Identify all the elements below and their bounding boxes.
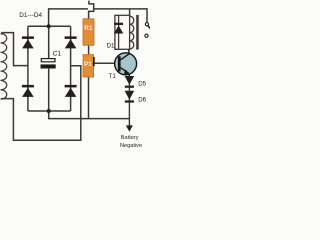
svg-text:P1: P1 <box>84 61 92 68</box>
P1 wiper bar <box>93 57 95 66</box>
wire P1 bottom to negative rail <box>88 77 90 119</box>
diode D1 bridge top-left <box>22 36 34 48</box>
relay contact terminal bottom <box>145 34 148 37</box>
wire R1 to P1 <box>88 45 90 54</box>
T1 collector lead <box>121 49 129 60</box>
svg-text:D1: D1 <box>107 43 115 50</box>
capacitor C1 <box>41 59 56 69</box>
relay contact arm <box>148 26 151 29</box>
T1 emitter arrowhead <box>124 70 130 75</box>
wire bridge column 2 <box>70 26 72 111</box>
wire D5-D6 chain <box>128 76 130 126</box>
resistor R1 <box>83 19 94 46</box>
svg-text:D1---D4: D1---D4 <box>19 12 42 19</box>
diode D3 bridge bottom-left <box>22 85 34 97</box>
svg-text:D5: D5 <box>138 81 146 88</box>
preset P1 <box>83 55 95 77</box>
wire loop over R1 top <box>89 1 94 19</box>
wire capacitor branch <box>48 26 50 111</box>
svg-text:D6: D6 <box>138 97 146 104</box>
transformer secondary winding <box>1 34 7 100</box>
wire bridge column 1 <box>27 26 29 111</box>
wire bottom bus of bridge <box>28 110 71 112</box>
svg-text:C1: C1 <box>53 51 62 58</box>
diode D4 bridge bottom-right <box>65 85 77 97</box>
T1 emitter lead <box>121 68 129 74</box>
T1 base bar <box>118 56 121 71</box>
wire coil-top to bridge AC1 node <box>1 33 28 66</box>
battery negative arrow <box>126 125 133 131</box>
node junction dot top <box>47 24 51 28</box>
node junction dot bottom <box>47 109 51 113</box>
svg-text:Battery: Battery <box>121 135 139 141</box>
relay core bar <box>136 15 139 50</box>
svg-text:T1: T1 <box>109 73 117 80</box>
transistor T1 <box>115 49 137 76</box>
svg-text:Negative: Negative <box>120 143 142 149</box>
relay contact terminal top <box>145 23 148 26</box>
wire positive top line right <box>94 9 147 23</box>
relay box <box>115 15 130 49</box>
wire relay coil top riser <box>129 9 131 15</box>
svg-text:R1: R1 <box>84 25 93 32</box>
wire positive top line left <box>49 9 88 26</box>
diode D5 <box>125 76 135 88</box>
relay coil loops <box>130 16 134 49</box>
diode D2 bridge top-right <box>65 36 77 48</box>
wire top bus of bridge <box>28 25 71 27</box>
diode D1 freewheel <box>114 15 123 49</box>
wire coil-bottom to bridge AC2 node <box>1 66 81 140</box>
diode D6 <box>125 91 135 103</box>
wire negative rail <box>49 111 130 119</box>
wire P1 wiper to T1 base <box>95 62 119 64</box>
wire emitter to D5 <box>128 74 130 76</box>
